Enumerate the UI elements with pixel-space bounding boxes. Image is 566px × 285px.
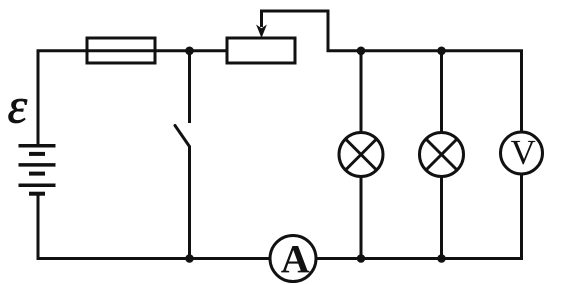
rheostat R (rectangle body): [227, 38, 295, 63]
wire: outer loop (battery bottom, bottom wire, right vertical, top-right wire, wiper link): [38, 11, 522, 259]
wire: switch lower lead: [188, 147, 191, 259]
lamp L1: [339, 133, 383, 177]
battery plate long 2: [19, 163, 56, 167]
fuse F (rectangle with wire through): [87, 38, 155, 63]
voltmeter V: [501, 132, 543, 174]
lamp L2: [420, 133, 464, 177]
battery plate short 1: [29, 152, 45, 156]
node: bottom wire / lamp 2 branch: [437, 254, 446, 263]
battery plate long 3: [19, 183, 56, 187]
ammeter A: [270, 236, 316, 282]
switch S (open blade): [175, 126, 190, 147]
battery plate short 2: [29, 172, 45, 176]
node: top wire / lamp 2 branch: [437, 47, 446, 56]
node: bottom wire / switch branch: [185, 254, 194, 263]
rheostat wiper arrowhead: [256, 25, 267, 39]
wire: lamp branch 1 vertical: [360, 51, 363, 259]
wire: switch upper lead: [188, 51, 191, 123]
node: top wire / switch branch: [185, 47, 194, 56]
label epsilon (EMF): [9, 99, 28, 123]
wire: lamp branch 2 vertical: [440, 51, 443, 259]
battery EMF cells: [19, 146, 56, 194]
node: bottom wire / lamp 1 branch: [357, 254, 366, 263]
battery plate long 1: [19, 144, 56, 148]
battery plate short 3: [29, 192, 45, 196]
node: top wire / lamp 1 branch: [357, 47, 366, 56]
wire: top-left run (top wire from rheostat left edge to top-left corner, down to battery top): [38, 51, 227, 146]
